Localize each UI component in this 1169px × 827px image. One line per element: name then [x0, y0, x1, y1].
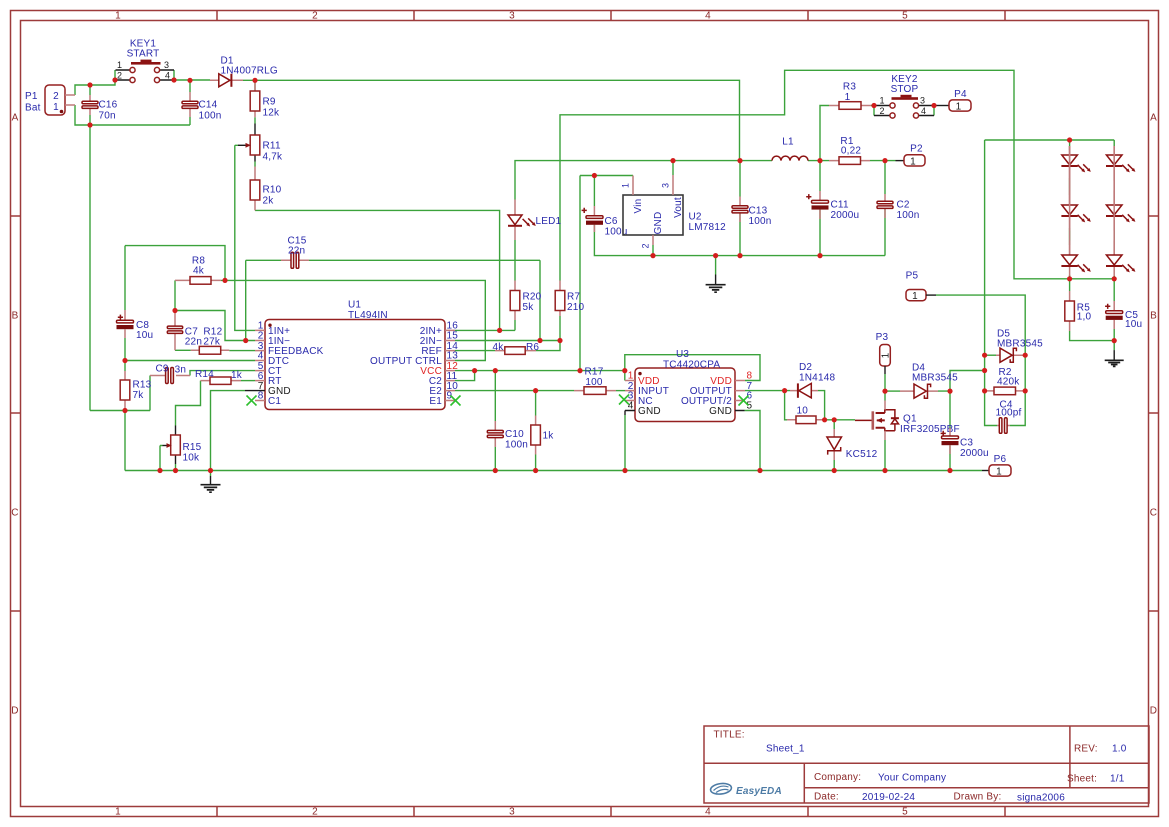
diode D2 1N4148 — [790, 362, 835, 398]
svg-text:7k: 7k — [133, 390, 145, 401]
svg-text:GND: GND — [638, 406, 661, 417]
svg-text:C14: C14 — [199, 100, 218, 111]
capacitor C11 2000u electrolytic — [806, 191, 859, 221]
svg-text:4,7k: 4,7k — [263, 151, 284, 162]
wire P3 down to drain node — [884, 374, 886, 391]
wire pin14 to R6 — [455, 350, 495, 352]
wire U3 OUTPUT to D2 and 10R — [745, 391, 790, 420]
svg-text:4k: 4k — [493, 342, 505, 353]
wire pin15 row — [455, 340, 560, 342]
wire C16 bottom lead joins — [89, 115, 91, 125]
resistor R12 27k — [191, 326, 230, 354]
wire D5/R2/C4 left column — [985, 140, 997, 426]
svg-text:1: 1 — [956, 102, 962, 113]
wire R14 right to pin6 — [241, 380, 255, 382]
svg-text:1/1: 1/1 — [1110, 774, 1125, 785]
no-connect X pin8 U1 — [247, 396, 257, 406]
wire D5/R2/C4 right column — [1010, 355, 1025, 425]
svg-text:12k: 12k — [263, 107, 281, 118]
connector P5 — [906, 270, 936, 302]
wire R3 to KEY2 pin1 — [871, 106, 874, 116]
capacitor C6 100u electrolytic — [582, 206, 628, 238]
svg-text:100n: 100n — [897, 210, 920, 221]
svg-text:GND: GND — [653, 212, 664, 235]
frame column ticks top — [217, 11, 1005, 21]
switch KEY2 STOP — [874, 74, 934, 118]
wire pin7 GND to ground — [211, 391, 246, 471]
svg-text:5: 5 — [902, 10, 908, 21]
wire C15 left drop to pin2 row — [245, 260, 247, 340]
switch KEY1 START — [116, 39, 175, 83]
svg-text:GND: GND — [709, 406, 732, 417]
diode D5 MBR3545 — [996, 329, 1043, 363]
svg-text:REV:: REV: — [1074, 744, 1098, 755]
svg-text:TITLE:: TITLE: — [714, 730, 745, 741]
wire KC512 top — [833, 420, 835, 429]
svg-text:U2: U2 — [689, 212, 702, 223]
wire LED string right links — [1113, 140, 1115, 279]
connector P6 — [982, 454, 1011, 478]
wire C9 left drop — [149, 376, 151, 411]
svg-text:E1: E1 — [429, 396, 442, 407]
svg-text:LM7812: LM7812 — [689, 222, 727, 233]
svg-text:B: B — [12, 311, 19, 322]
EasyEDA logo — [710, 782, 732, 795]
wire C2 top — [884, 161, 886, 194]
svg-text:A: A — [12, 113, 19, 124]
svg-text:Vin: Vin — [633, 199, 644, 214]
wire D4 cathode node — [938, 371, 985, 429]
svg-text:2: 2 — [641, 244, 651, 249]
wire C15 row — [246, 260, 540, 340]
svg-text:10k: 10k — [183, 453, 201, 464]
svg-text:Q1: Q1 — [903, 413, 917, 424]
connector P3 — [876, 332, 892, 374]
wire DTC row pin4 — [125, 360, 255, 362]
svg-text:4k: 4k — [193, 266, 205, 277]
svg-text:27k: 27k — [203, 336, 221, 347]
svg-text:TL494IN: TL494IN — [348, 310, 388, 321]
resistor R3 1 — [829, 82, 871, 110]
svg-text:C2: C2 — [897, 200, 910, 211]
wire gnd rail 255 — [594, 232, 885, 256]
svg-text:100n: 100n — [505, 440, 528, 451]
wire R12 right to pin3 — [229, 350, 255, 352]
frame row labels right — [1150, 113, 1157, 717]
svg-text:L1: L1 — [782, 136, 794, 147]
svg-text:C1: C1 — [268, 396, 281, 407]
svg-text:C3: C3 — [960, 438, 973, 449]
resistor 10 — [787, 406, 825, 424]
ground symbol U1 area — [201, 476, 221, 492]
LED lamp — [1106, 146, 1135, 279]
wire U3 GND pin5 down — [745, 411, 760, 471]
wire pin5 CT row with C9 jog — [190, 371, 255, 376]
frame row ticks left — [11, 216, 21, 611]
svg-text:TC4420CPA: TC4420CPA — [663, 359, 720, 370]
svg-text:Company:: Company: — [814, 772, 861, 783]
LED lamp — [1061, 146, 1090, 279]
ground symbol U2 area — [706, 275, 726, 293]
op-amp controller U1 TL494IN — [245, 300, 458, 410]
svg-text:3: 3 — [920, 96, 925, 106]
wire P1.1 to bottom rail — [75, 105, 190, 125]
wire C13 top — [739, 161, 741, 197]
wire LED string left links — [1069, 140, 1071, 279]
wire C10 top — [494, 371, 496, 421]
svg-text:C: C — [1150, 508, 1157, 519]
inductor L1 — [772, 136, 808, 160]
wire U3 GND pin4 down — [624, 415, 626, 471]
svg-text:10u: 10u — [136, 330, 153, 341]
no-connect X pin6 U3 — [739, 396, 749, 406]
potentiometer R11 4,7k — [238, 124, 283, 163]
wire C5 top — [1113, 279, 1115, 301]
wire R17 to U3 INPUT — [616, 390, 625, 392]
connector P1 Bat — [25, 85, 75, 115]
svg-text:2019-02-24: 2019-02-24 — [862, 792, 915, 803]
svg-text:1: 1 — [621, 183, 631, 188]
wire C6 bottom stub — [593, 225, 595, 232]
wire R14 left to R15 top — [176, 381, 201, 426]
frame column ticks bottom — [217, 807, 1005, 817]
svg-text:A: A — [1150, 113, 1157, 124]
wire main ground rail — [125, 470, 982, 472]
wire R7 bottom — [559, 316, 561, 341]
svg-text:3: 3 — [661, 183, 671, 188]
wire P1.2 to top node — [75, 70, 115, 95]
resistor R2 420k — [985, 367, 1026, 395]
capacitor C13 100n — [732, 197, 772, 228]
wire C8 vertical segments — [124, 246, 126, 411]
svg-text:KC512: KC512 — [846, 449, 878, 460]
wire gnd symbol stub U2 — [715, 256, 717, 275]
capacitor C9 3n — [150, 363, 190, 383]
capacitor C15 22n — [281, 236, 309, 269]
svg-text:P2: P2 — [910, 144, 923, 155]
wire rail between L1 and R1 — [808, 160, 829, 162]
wire main 12V rail with LED1 drop — [515, 161, 772, 200]
svg-text:Sheet:: Sheet: — [1067, 774, 1097, 785]
svg-text:420k: 420k — [997, 377, 1020, 388]
wire pin11 C2 tie to VCC — [455, 371, 475, 381]
svg-text:0,22: 0,22 — [841, 146, 862, 157]
svg-text:P3: P3 — [876, 332, 889, 343]
capacitor C7 22n — [167, 311, 202, 351]
resistor R9 12k — [250, 80, 280, 118]
ground symbol LED area — [1105, 350, 1124, 366]
svg-text:1: 1 — [845, 92, 851, 103]
svg-text:2k: 2k — [263, 195, 275, 206]
wire U2 GND down — [652, 245, 654, 256]
svg-text:1: 1 — [117, 60, 122, 70]
svg-text:2: 2 — [117, 71, 122, 81]
svg-text:2: 2 — [53, 91, 59, 102]
wire KEY2 branch from rail — [820, 106, 829, 161]
LED lamp — [1106, 146, 1135, 255]
wire LED top rail — [985, 139, 1115, 141]
resistor R5 1,0 — [1065, 291, 1092, 331]
svg-text:1: 1 — [996, 467, 1002, 478]
resistor R8 4k — [175, 255, 221, 284]
wire 1k top — [535, 391, 537, 416]
resistor R7 210 — [555, 281, 584, 317]
wire pin16 row — [455, 329, 515, 331]
svg-text:MBR3545: MBR3545 — [997, 338, 1043, 349]
diode D1 1N4007RLG — [210, 56, 278, 87]
svg-text:1: 1 — [115, 807, 121, 818]
wire Q1 source down — [884, 440, 886, 471]
svg-text:3: 3 — [509, 10, 515, 21]
svg-text:1k: 1k — [543, 431, 555, 442]
svg-text:2: 2 — [879, 106, 884, 116]
svg-text:C13: C13 — [749, 206, 768, 217]
wire 10R right to gate node — [825, 419, 855, 421]
wire C11 top — [819, 161, 821, 191]
wire C10 bottom — [494, 438, 496, 471]
resistor R13 7k — [120, 371, 151, 409]
frame column labels top — [115, 10, 908, 21]
svg-text:100n: 100n — [749, 216, 772, 227]
svg-text:C9: C9 — [156, 363, 169, 374]
resistor R1 0,22 — [829, 136, 870, 164]
svg-text:R13: R13 — [133, 379, 152, 390]
capacitor C3 2000u electrolytic — [941, 428, 989, 459]
frame column labels bottom — [115, 807, 908, 818]
wire R20 bottom elbow — [514, 320, 516, 330]
svg-text:1N4007RLG: 1N4007RLG — [221, 66, 278, 77]
capacitor C5 10u electrolytic — [1105, 301, 1142, 330]
svg-text:signa2006: signa2006 — [1017, 792, 1065, 803]
frame row ticks right — [1149, 216, 1159, 611]
svg-text:1,0: 1,0 — [1077, 312, 1092, 323]
svg-text:10u: 10u — [1125, 319, 1142, 330]
svg-text:3: 3 — [164, 60, 169, 70]
svg-text:2000u: 2000u — [831, 210, 860, 221]
no-connect X pin9 U1 — [451, 396, 461, 406]
wire R11 wiper down to U1 pin1 — [235, 145, 255, 330]
capacitor C8 10u electrolytic — [117, 310, 154, 341]
wire 1k bottom — [535, 455, 537, 471]
capacitor C14 100n — [182, 92, 222, 122]
wire VCC row pin12 — [455, 370, 625, 372]
svg-text:R14: R14 — [195, 369, 214, 380]
wire battery-minus drop C16 to rail410 — [89, 125, 91, 411]
wire E2 row pin10 to R17 — [455, 390, 574, 392]
svg-text:Your Company: Your Company — [878, 773, 946, 784]
svg-text:100n: 100n — [199, 111, 222, 122]
wire Q1 drain stub — [884, 391, 886, 401]
svg-text:P1: P1 — [25, 91, 38, 102]
wire C7 bottom link — [175, 349, 191, 351]
svg-text:STOP: STOP — [891, 84, 919, 95]
svg-text:R6: R6 — [526, 342, 539, 353]
svg-text:1: 1 — [115, 10, 121, 21]
wire C16 top lead joins — [89, 85, 91, 95]
svg-text:C11: C11 — [831, 200, 849, 211]
zener diode KC512 — [827, 429, 878, 460]
resistor R17 100 — [574, 367, 616, 395]
svg-text:2: 2 — [312, 10, 318, 21]
svg-text:100pf: 100pf — [996, 407, 1022, 418]
svg-text:C: C — [11, 508, 18, 519]
wire R8 right to OUTPUT-CTRL drop — [221, 280, 485, 360]
svg-text:B: B — [1150, 311, 1157, 322]
svg-text:1.0: 1.0 — [1112, 744, 1127, 755]
wire C7 node to U1 pin2 — [175, 311, 255, 341]
svg-text:10: 10 — [797, 406, 809, 417]
svg-text:1: 1 — [912, 291, 918, 302]
connector P4 — [934, 89, 971, 113]
wire R8 left to C7 node — [174, 280, 176, 310]
svg-text:IRF3205PBF: IRF3205PBF — [900, 424, 960, 435]
svg-text:2: 2 — [312, 807, 318, 818]
svg-text:5: 5 — [747, 401, 753, 412]
wire C3 bottom — [949, 445, 951, 470]
resistor R14 1k — [195, 369, 243, 384]
wire gnd symbol stub U1 — [210, 471, 212, 477]
resistor R6 4k — [493, 342, 540, 355]
wire R6 right elbow — [536, 341, 560, 351]
svg-text:C6: C6 — [605, 216, 618, 227]
wire B : R7 top over to LED array bottom rail — [560, 70, 1114, 280]
svg-text:Date:: Date: — [814, 791, 839, 802]
svg-text:P6: P6 — [994, 454, 1007, 465]
wire rail410 — [90, 410, 150, 412]
svg-text:5k: 5k — [523, 302, 535, 313]
svg-text:R11: R11 — [263, 140, 281, 151]
wire LED1 links — [514, 240, 516, 281]
wire R1 right to P2 — [870, 160, 896, 162]
wire P5 to D5 column — [936, 295, 1025, 355]
svg-text:D: D — [1150, 706, 1157, 717]
wire rail A : D1 cathode to C13 column — [243, 80, 740, 160]
svg-text:Bat: Bat — [25, 103, 41, 114]
regulator U2 LM7812 — [621, 175, 727, 249]
resistor R10 2k — [250, 167, 281, 211]
capacitor C10 100n — [487, 421, 528, 451]
wire D5 left stub — [985, 354, 996, 356]
transistor Q1 IRF3205PBF mosfet — [855, 401, 960, 441]
svg-text:C16: C16 — [99, 100, 118, 111]
svg-text:C10: C10 — [505, 429, 524, 440]
svg-text:3: 3 — [509, 807, 515, 818]
svg-text:MBR3545: MBR3545 — [912, 373, 958, 384]
wire D2 anode elbow — [818, 391, 825, 420]
wire C6 top stub — [593, 176, 595, 207]
wire U3 VDD loop — [625, 355, 760, 381]
svg-text:D: D — [11, 706, 18, 717]
title block — [704, 726, 1149, 803]
svg-text:100: 100 — [585, 377, 603, 388]
wire C8 top to R8 node — [125, 246, 225, 281]
svg-text:8: 8 — [258, 391, 264, 402]
capacitor C16 70n — [82, 95, 118, 122]
wire C13 bottom — [739, 213, 741, 256]
svg-text:210: 210 — [567, 302, 585, 313]
svg-text:4: 4 — [165, 71, 170, 81]
wire C2 bottom to gnd rail 255 — [884, 209, 886, 256]
svg-text:100u: 100u — [605, 227, 628, 238]
LED1 — [508, 200, 562, 241]
wire C6/Vin feed from VCC column — [580, 176, 633, 371]
LED lamp — [1106, 146, 1135, 205]
wire R9 link segments — [254, 80, 256, 166]
svg-text:LED1: LED1 — [536, 216, 562, 227]
resistor 1k — [531, 416, 554, 455]
svg-text:1k: 1k — [231, 370, 243, 381]
wire U2 Vout up to rail — [672, 161, 674, 175]
svg-text:3n: 3n — [175, 364, 187, 375]
svg-text:R9: R9 — [263, 96, 276, 107]
svg-text:4: 4 — [628, 401, 634, 412]
svg-text:70n: 70n — [99, 111, 116, 122]
svg-text:Sheet_1: Sheet_1 — [766, 744, 805, 755]
svg-text:1: 1 — [910, 156, 916, 167]
connector P2 — [896, 144, 926, 168]
no-connect X pin3 U3 — [619, 395, 629, 405]
svg-text:4: 4 — [921, 106, 926, 116]
svg-text:Vout: Vout — [673, 197, 684, 218]
wire R5 top — [1069, 279, 1071, 291]
diode D4 MBR3545 — [900, 362, 958, 398]
potentiometer R15 10k — [163, 426, 202, 465]
wire R15 wiper to rail — [160, 446, 163, 471]
svg-text:1N4148: 1N4148 — [799, 372, 835, 383]
svg-text:START: START — [127, 49, 160, 60]
wire R5/C5 bottom gnd link — [1070, 329, 1115, 350]
wire R10 bottom to 2IN+ node — [255, 210, 500, 330]
frame row labels left — [11, 113, 18, 717]
resistor R20 5k — [510, 281, 541, 321]
wire KEY2 pin3-4 short — [933, 106, 935, 116]
gate driver U3 TC4420CPA — [625, 349, 753, 422]
wire C14 bottom stub — [189, 117, 191, 125]
wire C11 bottom — [819, 210, 821, 256]
svg-text:1: 1 — [879, 96, 884, 106]
wire R15 bottom — [175, 464, 177, 471]
wire KC512 bottom — [833, 460, 835, 471]
capacitor C2 100n — [877, 194, 920, 221]
svg-text:22n: 22n — [288, 246, 305, 257]
wire rail410 to main ground rail — [124, 411, 126, 471]
svg-text:1: 1 — [53, 102, 59, 113]
svg-text:R15: R15 — [183, 442, 202, 453]
svg-text:4: 4 — [705, 10, 711, 21]
capacitor C4 100pf — [996, 399, 1022, 433]
LED lamp — [1061, 146, 1090, 255]
svg-text:4: 4 — [705, 807, 711, 818]
svg-text:P4: P4 — [954, 89, 967, 100]
svg-text:EasyEDA: EasyEDA — [736, 786, 782, 797]
LED lamp — [1061, 146, 1090, 205]
wire D4 anode from drain node — [885, 390, 900, 392]
wire KEY1 right elbow — [174, 70, 210, 80]
svg-text:P5: P5 — [906, 270, 919, 281]
svg-text:1: 1 — [881, 352, 892, 358]
svg-text:R10: R10 — [263, 184, 282, 195]
wire C14 top stub — [189, 80, 191, 92]
svg-text:R7: R7 — [567, 292, 580, 303]
svg-text:R20: R20 — [523, 292, 542, 303]
svg-text:2000u: 2000u — [960, 448, 989, 459]
svg-text:5: 5 — [902, 807, 908, 818]
svg-text:R17: R17 — [585, 367, 604, 378]
svg-text:Drawn By:: Drawn By: — [954, 791, 1002, 802]
